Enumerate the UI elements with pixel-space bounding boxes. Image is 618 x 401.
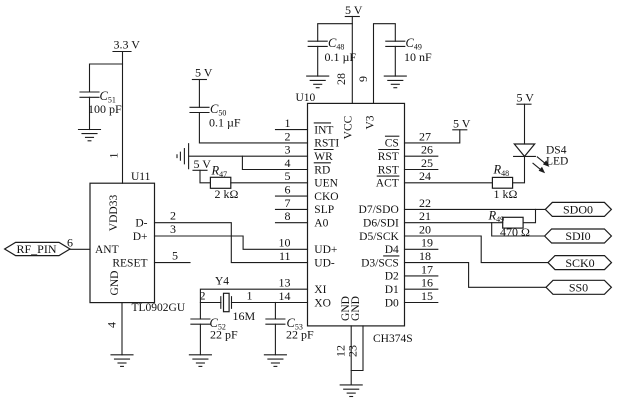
svg-text:13: 13	[279, 276, 291, 290]
svg-text:14: 14	[279, 289, 291, 303]
svg-text:10: 10	[279, 236, 291, 250]
svg-text:Y4: Y4	[215, 276, 229, 288]
svg-text:16M: 16M	[233, 309, 256, 323]
svg-text:7: 7	[285, 196, 291, 210]
pin 1 stub (INT)	[276, 116, 308, 130]
wire D3/SCS pin18 to SS0	[405, 249, 547, 287]
wire ground to U10 WR pin3	[189, 143, 308, 157]
capacitor C49	[386, 36, 432, 76]
svg-text:RST: RST	[378, 151, 399, 163]
svg-text:1: 1	[285, 116, 291, 130]
svg-text:D5/SCK: D5/SCK	[359, 231, 399, 243]
svg-text:3: 3	[170, 222, 176, 236]
svg-text:3.3 V: 3.3 V	[114, 37, 141, 51]
capacitor C52	[191, 316, 238, 355]
svg-text:5 V: 5 V	[517, 91, 535, 105]
svg-text:RST: RST	[378, 164, 399, 176]
svg-text:U11: U11	[131, 171, 151, 183]
svg-text:4: 4	[285, 156, 291, 170]
svg-text:5 V: 5 V	[195, 66, 213, 80]
svg-text:RSTI: RSTI	[314, 138, 339, 150]
svg-text:XI: XI	[314, 284, 326, 296]
svg-text:GND: GND	[109, 271, 121, 296]
svg-text:20: 20	[419, 222, 431, 236]
svg-text:15: 15	[421, 289, 433, 303]
port SDI0	[545, 229, 612, 243]
svg-text:18: 18	[419, 249, 431, 263]
svg-text:UD+: UD+	[314, 244, 337, 256]
pin 26 stub (RST)	[405, 143, 438, 157]
svg-text:INT: INT	[314, 124, 333, 136]
svg-text:1 kΩ: 1 kΩ	[494, 187, 518, 201]
wire R49 to SDO0 net	[523, 209, 535, 222]
svg-text:2: 2	[170, 209, 176, 223]
capacitor C53	[266, 316, 314, 355]
port SDO0	[545, 202, 611, 216]
U10 top pin labels VCC V3	[343, 115, 377, 139]
wire U10 GND pin12	[350, 326, 352, 385]
IC U11 TL0902GU	[90, 171, 186, 314]
ground (U11 GND)	[111, 355, 133, 367]
ground (WR/RD, rotated)	[177, 144, 189, 169]
svg-text:100 pF: 100 pF	[88, 102, 122, 116]
LED DS4	[514, 104, 569, 173]
wire node XI to C52	[199, 303, 201, 320]
svg-text:V3: V3	[365, 115, 377, 129]
wire 5V to C50	[198, 80, 200, 108]
svg-text:10 nF: 10 nF	[404, 50, 432, 64]
wire U11 D- pin2 to U10 UD- pin11	[155, 209, 308, 263]
svg-text:23: 23	[346, 345, 360, 357]
svg-text:SDI0: SDI0	[565, 229, 590, 243]
power 5V (LED)	[517, 91, 535, 105]
wire C50 to U10 RSTI pin2	[199, 113, 307, 143]
wire 5V to R47	[200, 170, 210, 183]
pin 8 stub (A0)	[276, 209, 308, 223]
svg-text:5: 5	[285, 169, 291, 183]
svg-text:U10: U10	[296, 92, 316, 104]
U10 right pin labels	[359, 136, 400, 309]
crystal Y4	[200, 276, 256, 324]
wire U11 GND pin4	[121, 303, 123, 355]
svg-text:D1: D1	[385, 284, 399, 296]
wire U10 GND pin23	[351, 326, 363, 371]
wire U11 D+ pin3 to U10 UD+ pin10	[155, 222, 308, 250]
svg-text:5: 5	[172, 248, 178, 262]
wire SDI junction to SDI0	[492, 223, 545, 236]
wire WR net to U10 RD pin4	[242, 156, 307, 170]
svg-text:22 pF: 22 pF	[210, 328, 238, 342]
power 5V (CS pin27)	[453, 116, 471, 130]
ground (C48)	[307, 76, 329, 88]
svg-text:CH374S: CH374S	[373, 333, 413, 345]
power 3.3V	[113, 37, 140, 51]
wire D5/SCK pin20 to SCK0	[405, 222, 549, 262]
wire D7/SDO pin22 to SDO0	[405, 196, 546, 210]
svg-text:24: 24	[419, 169, 431, 183]
wire R48 to LED	[513, 156, 525, 182]
svg-text:WR: WR	[314, 151, 333, 163]
wire branch to C51	[90, 64, 123, 92]
svg-text:SCK0: SCK0	[565, 256, 594, 270]
svg-text:D0: D0	[385, 297, 399, 309]
svg-text:ANT: ANT	[95, 244, 119, 256]
pin 7 stub (SLP)	[276, 196, 308, 210]
svg-text:A0: A0	[314, 218, 328, 230]
svg-text:UD-: UD-	[314, 257, 335, 269]
power 5V (R47 / UEN)	[193, 157, 211, 171]
svg-text:4: 4	[105, 322, 119, 328]
port RF_PIN	[5, 236, 73, 257]
resistor R48	[492, 163, 517, 202]
capacitor C48	[308, 36, 356, 76]
svg-text:19: 19	[421, 236, 433, 250]
svg-text:21: 21	[419, 209, 431, 223]
resistor R47	[210, 164, 238, 202]
svg-text:LED: LED	[546, 156, 568, 168]
svg-text:17: 17	[421, 262, 433, 276]
svg-text:2: 2	[285, 129, 291, 143]
power 5V (VCC)	[345, 3, 363, 17]
svg-text:VCC: VCC	[343, 115, 355, 139]
svg-text:1: 1	[107, 153, 121, 159]
svg-text:28: 28	[334, 73, 348, 85]
U10 bottom pin labels GND GND	[340, 296, 362, 321]
ground (U10 GND)	[340, 385, 362, 397]
svg-text:GND: GND	[350, 296, 362, 321]
svg-text:D4: D4	[385, 244, 399, 256]
svg-text:SLP: SLP	[314, 204, 334, 216]
wire V3 pin9 to C49	[374, 24, 396, 104]
wire 5V to VCC pin28	[351, 17, 353, 104]
wire ACT pin24 to R48	[405, 169, 493, 183]
pin 19 stub (D4)	[405, 236, 438, 250]
capacitor C50	[190, 102, 241, 130]
svg-text:SDO0: SDO0	[563, 203, 593, 217]
wire branch to C48	[318, 24, 353, 42]
svg-text:5 V: 5 V	[345, 3, 363, 17]
ground (C52)	[189, 355, 211, 367]
pin 17 stub (D2)	[405, 262, 438, 276]
ground (C53)	[264, 355, 286, 367]
svg-text:CS: CS	[385, 138, 399, 150]
wire R47 to U10 UEN pin5	[231, 169, 308, 183]
svg-text:RF_PIN: RF_PIN	[17, 242, 57, 256]
svg-text:5 V: 5 V	[453, 116, 471, 130]
IC U10 CH374S	[296, 92, 413, 345]
wire D6/SDI pin21 to R49	[405, 209, 503, 223]
svg-text:XO: XO	[314, 297, 331, 309]
svg-text:8: 8	[285, 209, 291, 223]
svg-text:ACT: ACT	[376, 178, 399, 190]
svg-text:6: 6	[67, 236, 73, 250]
U10 left pin labels	[314, 123, 339, 309]
svg-text:SS0: SS0	[569, 281, 588, 295]
svg-text:D-: D-	[135, 218, 147, 230]
wire 3.3V to U11 pin1	[122, 52, 124, 184]
pin 6 stub (CKO)	[276, 183, 308, 197]
svg-text:RESET: RESET	[112, 257, 147, 269]
svg-text:11: 11	[279, 249, 291, 263]
svg-text:26: 26	[421, 143, 433, 157]
power 5V (C50 / RSTI)	[192, 66, 212, 80]
svg-text:D6/SDI: D6/SDI	[363, 218, 399, 230]
wire node XO to C53	[274, 303, 276, 320]
pin 25 stub (RST)	[405, 156, 438, 170]
svg-text:5 V: 5 V	[194, 157, 212, 171]
wire U11 RESET pin5 stub	[155, 248, 191, 262]
svg-text:D7/SDO: D7/SDO	[359, 204, 399, 216]
ground (C51)	[79, 130, 101, 141]
svg-text:CKO: CKO	[314, 191, 338, 203]
capacitor C51	[80, 89, 122, 130]
svg-text:22: 22	[419, 196, 431, 210]
port SCK0	[548, 256, 612, 270]
svg-text:D+: D+	[133, 231, 148, 243]
svg-text:470 Ω: 470 Ω	[500, 225, 530, 239]
svg-text:25: 25	[421, 156, 433, 170]
svg-text:UEN: UEN	[314, 178, 338, 190]
svg-text:16: 16	[421, 276, 433, 290]
ground (C49)	[384, 76, 406, 88]
svg-text:VDD33: VDD33	[108, 195, 120, 232]
wire RF_PIN to ANT pin6	[70, 248, 90, 250]
svg-text:0.1 µF: 0.1 µF	[209, 116, 241, 130]
svg-text:9: 9	[356, 76, 370, 82]
svg-text:6: 6	[285, 183, 291, 197]
svg-text:3: 3	[285, 143, 291, 157]
svg-text:1: 1	[247, 289, 253, 303]
svg-text:2 kΩ: 2 kΩ	[215, 187, 239, 201]
svg-text:RD: RD	[314, 164, 330, 176]
wire U10 XI pin13 to crystal	[200, 276, 307, 303]
port SS0	[546, 280, 611, 294]
svg-text:0.1 µF: 0.1 µF	[325, 50, 357, 64]
pin 15 stub (D0)	[405, 289, 438, 303]
svg-text:D2: D2	[385, 271, 399, 283]
svg-text:D3/SCS: D3/SCS	[361, 257, 399, 269]
resistor R49	[488, 209, 531, 240]
pin 16 stub (D1)	[405, 276, 438, 290]
svg-text:22 pF: 22 pF	[286, 328, 314, 342]
wire CS pin27 to 5V	[405, 129, 460, 143]
svg-text:TL0902GU: TL0902GU	[132, 302, 186, 314]
wire crystal to U10 XO pin14	[232, 289, 308, 303]
svg-text:27: 27	[419, 129, 431, 143]
